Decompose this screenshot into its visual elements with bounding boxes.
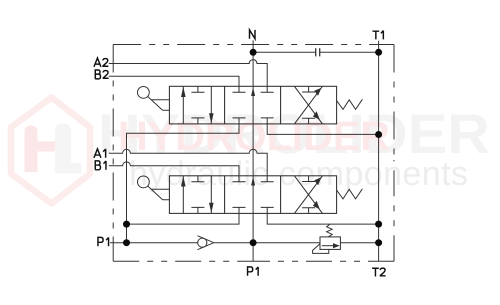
valve U1 right box crossed flow lines (294, 86, 322, 124)
port label A2 (94, 58, 108, 67)
wire P1 inlet line (110, 242, 379, 244)
wire B2 (109, 76, 239, 86)
valve U2 right box cross arrowhead down (313, 201, 320, 209)
wire B1 with hop (109, 162, 239, 176)
valve U1 right box cross arrowhead down (313, 111, 320, 119)
port label T2 (372, 268, 386, 277)
node N junction (250, 49, 257, 56)
valve U1 box dividers (225, 86, 281, 124)
port label B1 (95, 161, 106, 170)
wire N to T1 with plug (253, 51, 379, 53)
valve U2 right box blocked ports (302, 176, 315, 214)
port label P1 left (98, 237, 109, 246)
valve U1 right box cross arrowhead up (314, 88, 321, 96)
port label T1 (373, 31, 384, 40)
node left rail upper (123, 221, 130, 228)
wire T1-T2 vertical (378, 41, 380, 262)
svg-text:HYDROLIDER: HYDROLIDER (118, 113, 390, 159)
valve U1 body (3-position section) (169, 86, 336, 124)
valve U1 left box up arrowhead (181, 87, 186, 97)
node tank upper (375, 131, 382, 138)
enclosure dashed border (113, 45, 394, 262)
valve U2 body (3-position section) (169, 176, 336, 214)
wire valve1 right tank to T1 (267, 124, 378, 134)
wire A2 with hop over N (109, 60, 267, 87)
valve U2 return spring (337, 189, 363, 199)
valve U1 right box blocked ports (302, 86, 315, 124)
port label B2 (95, 70, 108, 79)
valve U2 box dividers (225, 176, 281, 214)
valve U2 left box flow lines (183, 176, 211, 214)
wire valve2 left return (127, 213, 240, 224)
valve U1 hand lever (138, 87, 170, 111)
valve U2 left box down arrowhead (209, 203, 214, 213)
node T2 junction (375, 239, 382, 246)
node T1 junction (375, 49, 382, 56)
valve U2 left box blocked ports (191, 176, 204, 214)
port label A1 (94, 149, 106, 158)
relief valve RV1 (313, 224, 341, 253)
port label N (250, 30, 256, 39)
relief valve arrow (333, 243, 340, 248)
valve U1 centre open passage arrowhead (251, 87, 255, 96)
wire valve2 right tank (267, 213, 378, 224)
watermark logo hexagon (11, 98, 90, 204)
valve U2 centre open passage arrowhead (251, 177, 255, 186)
port label P1 bottom (248, 267, 259, 276)
valve U1 left box flow lines (183, 86, 211, 124)
node left rail P1 (123, 239, 130, 246)
valve U1 left box blocked ports (191, 86, 204, 124)
svg-text:hydraulic components: hydraulic components (129, 155, 468, 193)
wire N vertical gallery (252, 40, 254, 261)
valve U2 right box cross arrowhead up (314, 177, 321, 185)
valve U1 return spring (337, 99, 363, 109)
valve U1 centre box blocked ports bottom (233, 118, 274, 124)
check valve CV1 (198, 236, 214, 250)
node P1 centre junction (250, 239, 257, 246)
valve U2 centre box blocked ports top (233, 176, 274, 182)
plug symbol ticks (316, 48, 320, 56)
valve U2 left box up arrowhead (181, 176, 186, 186)
valve U1 centre box blocked ports top (233, 86, 274, 92)
valve U2 right box crossed flow lines (294, 176, 322, 214)
valve U2 hand lever (138, 176, 170, 200)
valve U1 left box down arrowhead (209, 113, 214, 123)
node tank lower (375, 221, 382, 228)
wire valve1 left return to P1 rail (127, 124, 240, 243)
valve U2 centre box blocked ports bottom (233, 207, 274, 213)
wire A1 with hops (109, 149, 267, 176)
watermark HL monogram (25, 124, 82, 174)
